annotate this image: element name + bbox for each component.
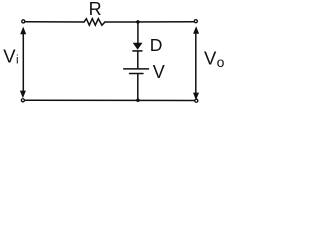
svg-text:D: D xyxy=(150,35,163,55)
svg-text:V: V xyxy=(153,62,165,82)
svg-text:V: V xyxy=(3,46,16,67)
svg-text:o: o xyxy=(217,54,225,70)
svg-text:i: i xyxy=(16,55,19,67)
svg-text:V: V xyxy=(204,48,217,69)
svg-text:R: R xyxy=(89,0,102,19)
